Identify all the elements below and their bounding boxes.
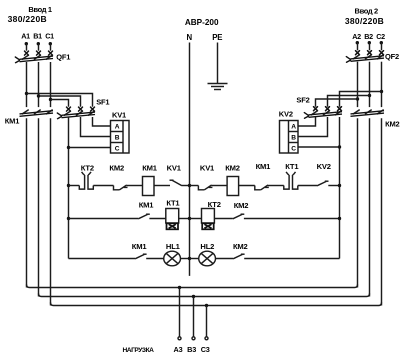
wire row1 e bbox=[190, 185, 199, 187]
timed contact KT2 bbox=[79, 172, 93, 189]
label input 1 title bbox=[8, 5, 52, 24]
junction left bus row1 bbox=[67, 184, 70, 187]
junction load tap B3 bbox=[192, 295, 195, 298]
svg-text:KV1: KV1 bbox=[200, 164, 215, 173]
wire row2 c bbox=[190, 218, 202, 220]
svg-text:SF1: SF1 bbox=[96, 98, 109, 107]
label load C3 bbox=[201, 345, 210, 354]
label KV2 contact row1 bbox=[317, 162, 331, 171]
node C1 supply terminal bbox=[45, 32, 54, 51]
node C2 supply terminal bbox=[376, 32, 385, 50]
label load A3 bbox=[174, 345, 183, 354]
wire phase C2 vertical bbox=[381, 62, 383, 107]
junction N row3 bbox=[188, 257, 191, 260]
node N bbox=[187, 33, 193, 276]
junction tap B2 bbox=[368, 94, 371, 97]
label KM1 contactor bbox=[5, 117, 19, 126]
svg-text:КМ1: КМ1 bbox=[256, 162, 272, 171]
label KM2 contact row2 bbox=[234, 201, 249, 210]
label HL2 bbox=[200, 242, 214, 251]
bus line phase B bbox=[39, 294, 370, 297]
node B1 supply terminal bbox=[33, 32, 42, 51]
bus line phase C bbox=[51, 303, 382, 306]
svg-text:Ввод 2: Ввод 2 bbox=[355, 6, 379, 15]
contact KV2 row1 bbox=[317, 181, 329, 186]
svg-text:КМ2: КМ2 bbox=[233, 242, 248, 251]
wire right control bus bbox=[339, 117, 341, 259]
svg-text:КМ1: КМ1 bbox=[142, 164, 158, 173]
contact KM2 row2 bbox=[233, 214, 245, 219]
wire row2 a bbox=[149, 218, 165, 220]
label HL1 bbox=[166, 242, 181, 251]
label KT1 coil bbox=[166, 199, 180, 208]
timer coil KT1 bbox=[166, 209, 179, 230]
wire load phase A1 down bbox=[26, 118, 28, 287]
contact KM1 row1 bbox=[255, 185, 269, 190]
wire row1 g bbox=[239, 185, 255, 187]
coil KM2 bbox=[227, 177, 239, 196]
label KM1 contact row2 bbox=[139, 201, 155, 210]
wire row3 e bbox=[244, 258, 339, 260]
svg-text:HL2: HL2 bbox=[200, 242, 214, 251]
wire row2 d bbox=[214, 218, 232, 220]
wire row1 i bbox=[298, 185, 317, 187]
label KM1 contact row1 bbox=[256, 162, 272, 171]
wire row1 a bbox=[93, 185, 113, 187]
circuit breaker QF2 bbox=[346, 51, 384, 63]
label SF2 bbox=[296, 95, 309, 104]
junction N row1 bbox=[188, 184, 191, 187]
svg-text:КТ2: КТ2 bbox=[208, 200, 221, 209]
wire row1 d bbox=[182, 185, 190, 187]
svg-text:КМ2: КМ2 bbox=[225, 164, 240, 173]
svg-text:КМ2: КМ2 bbox=[234, 201, 249, 210]
svg-text:380/220В: 380/220В bbox=[8, 14, 47, 24]
junction tap A1 bbox=[25, 92, 28, 95]
wire phase B1 vertical bbox=[38, 62, 40, 107]
label ABP-200 title bbox=[185, 18, 219, 27]
wire row1 j bbox=[328, 185, 339, 187]
svg-text:A2: A2 bbox=[352, 32, 361, 41]
contactor KM1 main contacts bbox=[20, 110, 54, 117]
junction right bus row1 bbox=[338, 184, 341, 187]
svg-text:SF2: SF2 bbox=[296, 95, 309, 104]
wire load phase A2 down bbox=[357, 118, 359, 287]
svg-text:КМ2: КМ2 bbox=[109, 164, 124, 173]
label KM1 coil bbox=[142, 164, 158, 173]
lamp HL1 bbox=[164, 251, 181, 266]
wire phase C1 vertical bbox=[50, 62, 52, 107]
wire load phase B2 down bbox=[369, 118, 371, 296]
junction load tap A3 bbox=[178, 286, 181, 289]
wire load C3 down bbox=[205, 306, 208, 340]
ground symbol bbox=[208, 84, 228, 90]
node B2 supply terminal bbox=[364, 32, 373, 50]
label load B3 bbox=[187, 345, 196, 354]
svg-text:В3: В3 bbox=[187, 345, 196, 354]
wire phase B2 vertical bbox=[369, 62, 371, 107]
node A2 supply terminal bbox=[352, 32, 361, 50]
svg-text:KV2: KV2 bbox=[279, 110, 293, 119]
wire tap to KV1-C bbox=[69, 147, 111, 149]
junction tap A2 bbox=[356, 97, 359, 100]
wire C1 to SF1 pole1 bbox=[51, 100, 69, 107]
wire row3 c bbox=[190, 258, 199, 260]
timer coil KT2 bbox=[202, 209, 215, 230]
wire phase A1 vertical bbox=[26, 62, 28, 107]
svg-text:A: A bbox=[115, 124, 120, 131]
wire B1 to SF1 pole2 bbox=[39, 96, 81, 107]
junction tap B1 bbox=[37, 94, 40, 97]
svg-text:KV1: KV1 bbox=[112, 111, 126, 120]
label QF2 bbox=[385, 52, 399, 61]
wire SF1 pole3 to KV1-A bbox=[93, 117, 111, 126]
label KT1 row1 bbox=[285, 162, 299, 171]
svg-text:АВР-200: АВР-200 bbox=[185, 18, 219, 27]
contactor KM2 main contacts bbox=[351, 110, 385, 117]
svg-text:B1: B1 bbox=[33, 32, 42, 41]
svg-text:KV2: KV2 bbox=[317, 162, 331, 171]
label KM2 contactor bbox=[385, 120, 399, 129]
wire A1 to SF1 pole3 bbox=[27, 94, 93, 107]
svg-text:PE: PE bbox=[212, 33, 222, 42]
label KV1 contact row1 right bbox=[200, 164, 215, 173]
label KM2 contact row1 bbox=[109, 164, 124, 173]
wire B2 to SF2 pole2 bbox=[328, 96, 370, 107]
junction N row2 bbox=[188, 217, 191, 220]
wire SF2 pole1 to KV2-A bbox=[299, 117, 316, 126]
svg-text:КТ1: КТ1 bbox=[285, 162, 299, 171]
svg-text:B: B bbox=[115, 135, 120, 142]
wire row1 start bbox=[69, 185, 80, 187]
svg-text:КМ1: КМ1 bbox=[139, 201, 155, 210]
svg-text:КТ2: КТ2 bbox=[81, 164, 94, 173]
junction tap C1 bbox=[49, 98, 52, 101]
wire C2 to SF2 pole3 bbox=[340, 92, 382, 107]
junction left bus KV1-C tap bbox=[67, 146, 70, 149]
junction tap C2 bbox=[380, 90, 383, 93]
svg-text:КТ1: КТ1 bbox=[166, 199, 180, 208]
breaker SF1 bbox=[57, 107, 95, 119]
label KV1 bbox=[112, 111, 126, 120]
svg-text:B2: B2 bbox=[364, 32, 373, 41]
wire row2 b bbox=[179, 218, 190, 220]
label KM2 contact row3 bbox=[233, 242, 248, 251]
svg-text:C: C bbox=[291, 145, 296, 152]
svg-text:QF1: QF1 bbox=[56, 52, 70, 61]
junction left bus row2 bbox=[67, 217, 70, 220]
svg-text:С3: С3 bbox=[201, 345, 210, 354]
junction load tap C3 bbox=[205, 304, 208, 307]
contact KM1 row2 bbox=[138, 214, 150, 219]
wire load phase C2 down bbox=[381, 118, 383, 305]
svg-text:C1: C1 bbox=[45, 32, 54, 41]
wire row1 f bbox=[212, 185, 228, 187]
node PE bbox=[212, 33, 222, 83]
label KT2 row1 bbox=[81, 164, 94, 173]
svg-text:KV1: KV1 bbox=[167, 164, 182, 173]
coil KM1 bbox=[143, 177, 155, 196]
junction right bus row2 bbox=[338, 217, 341, 220]
bus line phase A bbox=[27, 285, 358, 288]
wire load phase B1 down bbox=[38, 118, 40, 296]
contact KM2 row1 bbox=[114, 185, 128, 190]
label KM2 coil bbox=[225, 164, 240, 173]
voltage relay U2 KV2 bbox=[280, 121, 299, 154]
node A1 supply terminal bbox=[21, 32, 30, 51]
svg-text:А3: А3 bbox=[174, 345, 183, 354]
junction right bus KV2-C tap bbox=[338, 145, 341, 148]
contact KM2 row3 bbox=[233, 254, 245, 259]
svg-text:C: C bbox=[115, 145, 120, 152]
label load bbox=[123, 347, 155, 354]
svg-text:C2: C2 bbox=[376, 32, 385, 41]
label KM1 contact row3 bbox=[132, 242, 148, 251]
svg-text:A: A bbox=[291, 124, 296, 131]
svg-text:B: B bbox=[291, 135, 296, 142]
wire row1 h bbox=[268, 185, 284, 187]
label KT2 coil bbox=[208, 200, 221, 209]
lamp HL2 bbox=[199, 251, 216, 266]
svg-text:HL1: HL1 bbox=[166, 242, 181, 251]
wire tap to KV2-C bbox=[299, 146, 340, 148]
label SF1 bbox=[96, 98, 109, 107]
svg-text:A1: A1 bbox=[21, 32, 30, 41]
breaker SF2 bbox=[304, 107, 342, 119]
wire SF2 pole2 to KV2-B bbox=[299, 117, 328, 137]
svg-text:КМ1: КМ1 bbox=[5, 117, 19, 126]
wire row2 start bbox=[69, 218, 139, 220]
wire row1 c bbox=[154, 185, 170, 187]
wire load A3 down bbox=[178, 288, 181, 340]
wire row3 d bbox=[216, 258, 234, 260]
wire left control bus bbox=[68, 117, 70, 259]
label KV1 contact row1 left bbox=[167, 164, 182, 173]
wire phase A2 vertical bbox=[357, 62, 359, 107]
svg-text:КМ1: КМ1 bbox=[132, 242, 148, 251]
wire row3 b bbox=[181, 258, 190, 260]
circuit breaker QF1 bbox=[15, 51, 53, 63]
contact KV1 row1 right bbox=[198, 185, 212, 190]
svg-text:QF2: QF2 bbox=[385, 52, 399, 61]
wire row2 e bbox=[244, 218, 340, 220]
svg-text:Ввод 1: Ввод 1 bbox=[28, 5, 52, 14]
wire SF1 pole2 to KV1-B bbox=[81, 117, 111, 137]
label KV2 bbox=[279, 110, 293, 119]
wire load B3 down bbox=[192, 297, 195, 340]
wire load phase C1 down bbox=[50, 118, 52, 305]
wire A2 to SF2 pole1 bbox=[316, 99, 358, 107]
wire row3 a bbox=[146, 258, 164, 260]
svg-text:380/220В: 380/220В bbox=[345, 16, 384, 26]
label input 2 title bbox=[345, 6, 384, 26]
wire row1 b bbox=[127, 185, 143, 187]
svg-text:КМ2: КМ2 bbox=[385, 120, 399, 129]
contact KM1 row3 bbox=[135, 254, 147, 259]
wire row3 start bbox=[69, 258, 136, 260]
timed contact KT1 bbox=[284, 172, 298, 189]
contact KV1 row1 left bbox=[170, 180, 183, 186]
label QF1 bbox=[56, 52, 70, 61]
voltage relay U1 KV1 bbox=[111, 121, 130, 154]
svg-text:НАГРУЗКА: НАГРУЗКА bbox=[123, 347, 155, 354]
svg-text:N: N bbox=[187, 33, 193, 42]
